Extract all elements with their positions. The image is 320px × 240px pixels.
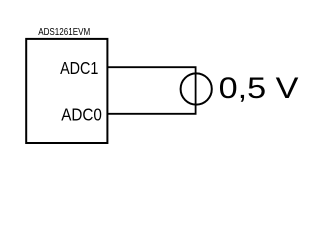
svg-text:ADC0: ADC0: [61, 105, 102, 125]
svg-text:ADC1: ADC1: [60, 58, 98, 78]
svg-text:ADS1261EVM: ADS1261EVM: [38, 27, 90, 38]
svg-text:0,5 V: 0,5 V: [219, 72, 299, 105]
